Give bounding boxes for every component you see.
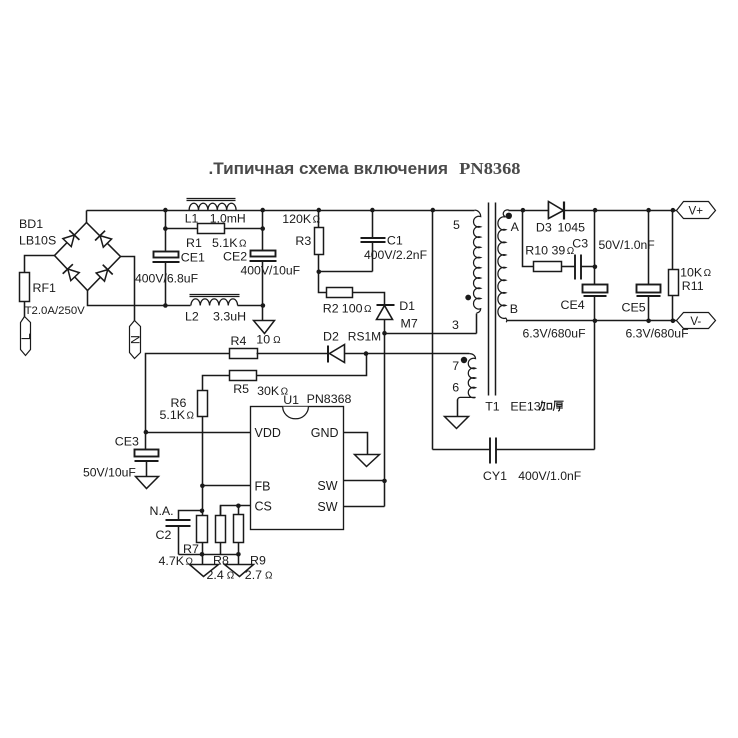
svg-text:SW: SW (317, 479, 337, 493)
junction dot D1 bottom (drain node) (382, 331, 387, 336)
resistor R8 (207, 506, 235, 583)
svg-text:6.3V/680uF: 6.3V/680uF (523, 326, 586, 340)
svg-text:L1: L1 (185, 211, 199, 225)
capacitor CY1 (483, 438, 581, 484)
svg-text:6: 6 (452, 381, 459, 395)
junction dot top rail at CE1 (163, 208, 168, 213)
pin label CS (255, 500, 272, 514)
wire stub to ground R9 (238, 555, 240, 565)
wire bridge bottom vertex to bottom rail (88, 291, 191, 306)
svg-text:T1: T1 (485, 399, 500, 413)
transformer T1 auxiliary winding pin7-pin6 (452, 354, 475, 417)
capacitor CE5 (622, 211, 689, 341)
resistor R6 (160, 391, 208, 422)
wire CE2 bottom to rail and ground (262, 261, 264, 321)
ground under R7 (190, 565, 219, 577)
capacitor CE4 (523, 211, 608, 341)
junction dot C3 to CE4 riser (593, 265, 598, 270)
svg-text:T2.0A/250V: T2.0A/250V (25, 305, 86, 317)
wire CE1 branch vertical (165, 211, 167, 251)
wire output top rail A to D3 (509, 210, 549, 212)
bridge diode bottom-right (95, 265, 112, 282)
svg-text:PN8368: PN8368 (459, 159, 520, 178)
inductor L1 (185, 199, 246, 226)
svg-text:M7: M7 (401, 317, 418, 331)
transformer core (489, 203, 496, 396)
svg-text:D2: D2 (323, 330, 339, 344)
junction dot D2 net (364, 351, 369, 356)
resistor R5 (230, 371, 289, 399)
svg-text:A: A (511, 220, 520, 234)
wire D3 to V+ rail (565, 210, 677, 212)
ground under R9 (225, 565, 254, 577)
svg-text:C2: C2 (156, 528, 172, 542)
junction dot bottom rail at CE2 (261, 303, 266, 308)
node V- terminal (677, 313, 716, 329)
svg-text:R5: R5 (233, 382, 249, 396)
phasing dot auxiliary (461, 357, 467, 363)
node L terminal (19, 317, 33, 356)
svg-text:C3: C3 (572, 237, 588, 251)
svg-text:1045: 1045 (558, 221, 586, 235)
junction dot bus at R7 (200, 552, 205, 557)
svg-text:D1: D1 (399, 299, 415, 313)
junction dot output minus at R11 (671, 319, 676, 324)
svg-text:CE2: CE2 (223, 249, 247, 263)
svg-text:C1: C1 (387, 234, 403, 248)
wire RF1 to L terminal (24, 302, 26, 317)
svg-text:VDD: VDD (255, 426, 281, 440)
junction dot R10 tap (521, 208, 526, 213)
junction dot FB node (200, 484, 205, 489)
capacitor C2 (N.A.) (150, 504, 203, 555)
pin label GND (311, 426, 339, 440)
wire CE1 bottom to rail (165, 262, 167, 306)
wire CS pin (221, 506, 251, 516)
svg-text:CE3: CE3 (115, 434, 139, 448)
svg-text:400V/1.0nF: 400V/1.0nF (518, 469, 581, 483)
wire bottom CY1 right (496, 449, 595, 451)
fuse RF1 (20, 273, 86, 317)
svg-text:CE5: CE5 (622, 301, 646, 315)
junction dot top rail at CY1 riser (431, 208, 436, 213)
svg-text:BD1: BD1 (19, 217, 43, 231)
svg-text:2.7Ω: 2.7Ω (245, 568, 273, 582)
svg-text:6.3V/680uF: 6.3V/680uF (626, 326, 689, 340)
junction dot top rail at R3 (317, 208, 322, 213)
wire L2 to CE2 node (238, 305, 263, 307)
pin label FB (255, 480, 271, 494)
svg-text:GND: GND (311, 426, 339, 440)
svg-text:SW: SW (317, 500, 337, 514)
svg-text:N: N (128, 335, 142, 344)
capacitor C3 (562, 237, 655, 280)
ground under CE3 (136, 477, 159, 489)
capacitor C1 (361, 211, 428, 272)
resistor R4 (230, 333, 282, 359)
wire sense bottom bus (179, 554, 239, 556)
junction dot output plus at CE5 (646, 208, 651, 213)
pin label VDD (255, 426, 281, 440)
wire bottom CY1 left (433, 449, 490, 451)
diode D3 1045 (536, 202, 585, 235)
inductor L2 (185, 295, 246, 324)
wire R2 to D1 (353, 293, 385, 305)
junction dot SW upper (382, 479, 387, 484)
svg-text:R3: R3 (295, 234, 311, 248)
junction dot output plus at R11 (671, 208, 676, 213)
junction dot output minus at CE4 (593, 319, 598, 324)
node V+ terminal (677, 202, 716, 219)
junction dot R1 left (163, 226, 168, 231)
svg-text:FB: FB (255, 480, 271, 494)
capacitor CE2 (223, 249, 300, 277)
svg-text:50V/10uF: 50V/10uF (83, 465, 136, 479)
wire SW upper pin (344, 480, 385, 482)
wire C1 bottom to R3 bottom (319, 271, 373, 273)
diode D1 M7 (377, 299, 418, 334)
op-amp U1 PN8368 package (251, 392, 352, 529)
svg-text:V-: V- (690, 315, 701, 328)
svg-text:400V/2.2nF: 400V/2.2nF (364, 248, 427, 262)
resistor R11 (669, 211, 712, 321)
svg-text:5.1KΩ: 5.1KΩ (160, 408, 195, 422)
resistor R9 (234, 506, 274, 583)
title text (209, 159, 521, 178)
svg-text:RS1M: RS1M (348, 330, 381, 344)
svg-text:CS: CS (255, 500, 272, 514)
resistor R1 (166, 224, 263, 251)
wire output bottom rail B to V- (507, 320, 677, 322)
label T1 (485, 399, 500, 413)
transformer T1 primary winding pin5-pin3 (452, 210, 481, 333)
wire GND pin (344, 433, 368, 455)
capacitor CE3 (83, 433, 159, 480)
wire FB node to C2 node (202, 486, 204, 511)
wire bridge left vertex to RF1 (25, 256, 55, 273)
svg-text:V+: V+ (689, 204, 704, 217)
svg-text:120KΩ: 120KΩ (282, 212, 320, 226)
svg-text:PN8368: PN8368 (307, 392, 352, 406)
svg-text:400V/6.8uF: 400V/6.8uF (135, 272, 198, 286)
svg-text:L2: L2 (185, 310, 199, 324)
svg-text:10KΩ: 10KΩ (680, 266, 712, 280)
svg-text:.Типичная схема включения: .Типичная схема включения (209, 160, 449, 178)
svg-text:R2: R2 (323, 301, 339, 315)
resistor R7 (159, 511, 208, 569)
svg-text:L: L (19, 333, 33, 340)
svg-text:R1: R1 (186, 236, 202, 250)
svg-text:400V/10uF: 400V/10uF (241, 264, 301, 278)
wire bridge top vertex to rail (86, 211, 88, 223)
svg-text:LB10S: LB10S (19, 234, 56, 248)
wire pin3 to drain node (385, 333, 477, 335)
junction dot R3 bottom (317, 270, 322, 275)
junction dot output plus at CE4 (593, 208, 598, 213)
svg-text:EE13: EE13 (510, 399, 540, 413)
junction dot C2/R7 node (200, 509, 205, 514)
svg-text:R11: R11 (682, 279, 704, 293)
wire stub to ground R7 (202, 555, 204, 565)
svg-text:5.1KΩ: 5.1KΩ (212, 236, 247, 250)
ground under GND pin (355, 455, 380, 467)
svg-text:CE1: CE1 (181, 251, 205, 265)
ground under auxiliary winding (445, 417, 469, 429)
wire D2 to aux winding pin7 (345, 353, 470, 355)
transformer T1 secondary winding A-B (498, 210, 520, 322)
pin label SW upper (317, 479, 337, 493)
wire drain vertical D1 to SW (384, 334, 386, 507)
bridge rectifier BD1 diamond (55, 223, 121, 291)
junction dot top rail at CE2 (260, 208, 265, 213)
pin label SW lower (317, 500, 337, 514)
wire VDD pin (146, 432, 251, 434)
junction dot top rail at C1 (370, 208, 375, 213)
bridge diode bottom-left (63, 264, 80, 281)
phasing dot primary (465, 295, 471, 301)
wire bridge right vertex to N terminal (121, 257, 135, 321)
svg-text:4.7KΩ: 4.7KΩ (159, 554, 194, 568)
resistor R3 (282, 211, 323, 272)
wire SW lower pin (344, 506, 385, 508)
wire R4 to D2 (257, 353, 329, 355)
bridge diode top-right (95, 231, 112, 248)
bridge diode top-left (62, 230, 79, 247)
label EE13 core type (510, 399, 563, 413)
svg-text:B: B (510, 302, 518, 316)
junction dot bus at R9 (236, 552, 241, 557)
ground under CE2 (254, 321, 275, 334)
svg-text:U1: U1 (283, 393, 299, 407)
svg-text:3: 3 (452, 318, 459, 332)
svg-text:RF1: RF1 (33, 281, 57, 295)
resistor R2 (319, 272, 372, 316)
svg-text:N.A.: N.A. (150, 504, 174, 518)
junction dot VDD/CE3 (144, 430, 149, 435)
svg-text:50V/1.0nF: 50V/1.0nF (599, 238, 655, 252)
svg-text:CE4: CE4 (561, 298, 585, 312)
svg-text:R10 39Ω: R10 39Ω (525, 243, 574, 257)
wire FB pin (203, 485, 251, 487)
junction dot CS/R9 (236, 504, 241, 509)
wire CY1 riser to output minus (594, 321, 596, 450)
snubber R10 (523, 211, 575, 272)
phasing dot secondary (506, 213, 512, 219)
wire top rail (bridge + to transformer pin5) (87, 210, 475, 212)
wire CY1 left riser (432, 211, 434, 450)
svg-text:7: 7 (452, 359, 459, 373)
svg-text:R4: R4 (231, 334, 247, 348)
wire R5 to R6 (203, 376, 230, 391)
svg-text:5: 5 (453, 218, 460, 232)
junction dot R1 right (260, 226, 265, 231)
wire VDD-aux divider riser (257, 354, 367, 376)
wire R6 to FB (202, 417, 204, 486)
svg-text:3.3uH: 3.3uH (213, 310, 246, 324)
label BD1 (19, 217, 56, 247)
svg-text:D3: D3 (536, 221, 552, 235)
capacitor CE1 (135, 251, 205, 286)
junction dot bottom rail at CE1 (163, 303, 168, 308)
wire R4 row from left riser (146, 354, 231, 433)
svg-text:100Ω: 100Ω (342, 301, 372, 315)
svg-text:CY1: CY1 (483, 469, 507, 483)
diode D2 RS1M (323, 330, 381, 363)
junction dot output minus at CE5 (646, 319, 651, 324)
svg-text:10Ω: 10Ω (256, 333, 281, 347)
node N terminal (128, 321, 142, 359)
wire CE2 branch vertical (262, 211, 264, 251)
